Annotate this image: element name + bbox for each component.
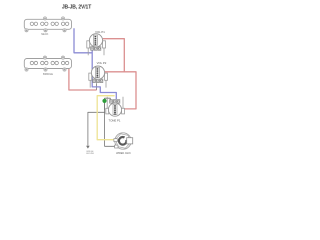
svg-text:VOL P1: VOL P1 bbox=[95, 30, 105, 34]
svg-text:JB-JB, 2V/1T: JB-JB, 2V/1T bbox=[62, 4, 91, 10]
green dot junction bbox=[102, 99, 106, 103]
wire green-dot corner to tone lug1 bbox=[105, 98, 111, 110]
volume pot VOL P2 bbox=[89, 66, 108, 88]
ground symbol bbox=[86, 146, 95, 155]
svg-text:NECK: NECK bbox=[41, 32, 48, 36]
tone pot TONE P1 bbox=[106, 97, 125, 116]
svg-text:BRIDGE: BRIDGE bbox=[43, 72, 53, 76]
svg-text:GROUND: GROUND bbox=[86, 153, 95, 155]
wire tee left to ground symbol bbox=[88, 112, 105, 145]
neck pickup bbox=[24, 17, 71, 32]
wire: red bridge pickup to VOL P2 lug2 bbox=[69, 68, 97, 90]
bridge pickup bbox=[24, 56, 71, 71]
wire: red VOL P1 to junction on VOL P2 red bbox=[103, 39, 125, 72]
svg-text:WIRED JACK: WIRED JACK bbox=[116, 152, 131, 155]
svg-text:VOL P2: VOL P2 bbox=[97, 61, 107, 65]
wire green-dot down to jack sleeve bbox=[105, 98, 116, 146]
black ground wires bbox=[88, 83, 116, 146]
output jack bbox=[114, 133, 133, 149]
svg-text:TONE P1: TONE P1 bbox=[109, 118, 121, 122]
wire: yellow tone lug2 to jack tip bbox=[97, 96, 115, 140]
wire: blue VOL P1 lug1 down and over to tone pot lug2 bbox=[92, 50, 116, 100]
wire: blue neck pickup to VOL P1 lug1 bbox=[74, 28, 92, 53]
wire stub VOL P2 lug2 to red bbox=[96, 83, 98, 90]
wire: red VOL P2 right to tone pot right tab bbox=[105, 72, 136, 109]
volume pot VOL P1 bbox=[87, 34, 106, 56]
